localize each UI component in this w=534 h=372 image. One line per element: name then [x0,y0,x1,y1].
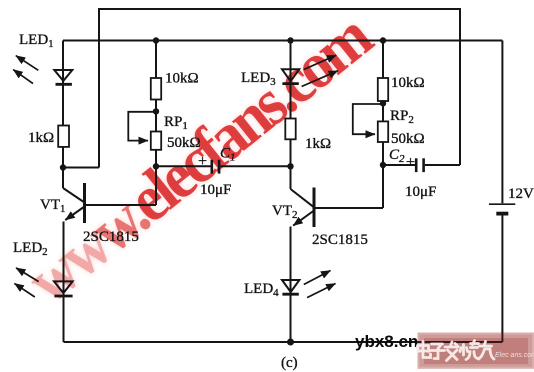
svg-text:LED4: LED4 [244,281,279,299]
svg-text:12V: 12V [508,186,534,202]
svg-text:+: + [406,154,415,171]
svg-text:(c): (c) [281,355,298,371]
svg-text:+: + [198,153,207,170]
svg-text:10μF: 10μF [200,182,231,198]
svg-text:10kΩ: 10kΩ [391,75,425,91]
svg-text:10μF: 10μF [405,184,436,200]
svg-text:LED1: LED1 [19,32,54,50]
svg-text:RP1: RP1 [164,114,188,132]
svg-text:2SC1815: 2SC1815 [312,232,368,248]
svg-text:VT1: VT1 [40,197,66,215]
svg-text:2SC1815: 2SC1815 [83,229,139,245]
svg-text:1kΩ: 1kΩ [305,136,331,152]
svg-text:RP2: RP2 [390,108,414,126]
svg-text:VT2: VT2 [272,203,298,221]
svg-text:10kΩ: 10kΩ [165,71,199,87]
svg-text:Elec ans.com: Elec ans.com [495,352,534,359]
svg-text:ybx8.cn: ybx8.cn [355,332,418,351]
svg-text:50kΩ: 50kΩ [391,131,425,147]
svg-text:C2: C2 [389,147,405,165]
svg-text:1kΩ: 1kΩ [28,130,54,146]
svg-text:50kΩ: 50kΩ [167,135,201,151]
